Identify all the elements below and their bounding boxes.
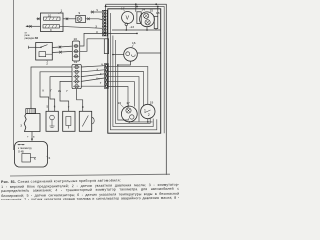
wire relay left terminal <box>29 46 36 48</box>
wire under lower gauges <box>129 121 152 123</box>
svg-text:4: 4 <box>49 156 51 160</box>
sensor box 8 <box>79 111 94 131</box>
svg-text:17: 17 <box>126 101 130 105</box>
svg-text:15: 15 <box>150 9 154 13</box>
figure bottom separator rule <box>10 174 170 176</box>
wire conn10 pin1 up to cluster <box>80 33 103 46</box>
svg-text:Ч: Ч <box>101 62 103 66</box>
svg-text:реле: реле <box>25 35 31 37</box>
connector strip A on cluster edge <box>102 10 107 36</box>
svg-text:3: 3 <box>20 124 22 128</box>
svg-text:19: 19 <box>150 101 154 105</box>
fuse block 1 <box>41 13 64 32</box>
lower-left gauge 17 <box>121 106 137 122</box>
wire drop to right resistor <box>157 7 159 17</box>
svg-text:16: 16 <box>118 101 122 105</box>
svg-text:18: 18 <box>156 11 160 15</box>
connector strip B on cluster edge <box>104 64 108 89</box>
wire arrow up from pin strip <box>105 5 107 10</box>
wire loop a inside cluster <box>110 13 156 130</box>
svg-text:Кч: Кч <box>96 77 100 81</box>
sensor box 7 <box>63 111 75 131</box>
wire left vertical bus <box>13 0 15 150</box>
lamp module 14 15 <box>137 12 158 29</box>
connector housing mid <box>104 39 108 54</box>
wire top bus outer with right drop <box>106 4 167 175</box>
tachometer box 4 <box>15 142 48 168</box>
wire relay to connector 10 <box>52 46 72 47</box>
sensor box 3 <box>24 109 40 132</box>
wires connector 11 left to sensors <box>31 67 72 109</box>
wire loop d inside cluster <box>118 65 129 120</box>
svg-text:2: 2 <box>46 62 48 66</box>
wire loop b inside cluster <box>113 36 153 127</box>
wire box3 to tachometer box <box>31 132 33 141</box>
wire fuse2 left with arrow <box>27 25 41 27</box>
wire conn10 pin2 up to mid housing <box>80 39 87 52</box>
svg-text:16: 16 <box>132 41 136 45</box>
instrument cluster box <box>108 9 161 133</box>
connector 10 <box>72 41 79 61</box>
figure caption <box>1 177 179 207</box>
wire drop to lamp module <box>135 4 137 12</box>
svg-text:10: 10 <box>48 14 52 18</box>
wire fuse1 left <box>37 18 41 20</box>
wire top bus inner with right drop <box>106 7 165 134</box>
svg-text:11: 11 <box>74 60 77 64</box>
wire connector 9 to cluster <box>86 18 103 21</box>
relay box 2 <box>36 43 53 61</box>
svg-text:к тахометру: к тахометру <box>18 147 32 150</box>
wire pin1 from left <box>91 11 103 13</box>
svg-text:17: 17 <box>121 6 125 10</box>
wires connector 11 to cluster with labels <box>81 66 104 67</box>
lower-right gauge 19 <box>141 104 155 118</box>
wire fuse2 right to cluster <box>60 26 103 28</box>
sensor box 5-6 <box>46 111 58 131</box>
svg-text:Кч: Кч <box>58 89 62 93</box>
wire fuse1 right to connector 9 <box>63 18 76 20</box>
svg-text:О 4В: О 4В <box>18 151 24 154</box>
connector 11 <box>72 64 81 88</box>
svg-text:14: 14 <box>142 8 146 12</box>
svg-text:Ч: Ч <box>96 8 98 12</box>
svg-text:10: 10 <box>74 37 78 41</box>
svg-text:1: 1 <box>144 109 146 113</box>
wire under top gauges <box>112 29 161 31</box>
svg-text:З: З <box>95 25 97 29</box>
svg-text:2: 2 <box>148 113 150 117</box>
node top bus junctions <box>135 3 137 5</box>
wire loop c inside cluster <box>115 40 150 123</box>
svg-text:разрядки ВЗ: разрядки ВЗ <box>25 38 39 40</box>
fuse 9 component <box>76 16 86 23</box>
gauge 16 <box>112 48 161 66</box>
svg-text:-13: -13 <box>130 25 135 29</box>
voltmeter gauge 13 <box>122 12 134 31</box>
wire fan from connector to lower gauges <box>108 66 147 104</box>
